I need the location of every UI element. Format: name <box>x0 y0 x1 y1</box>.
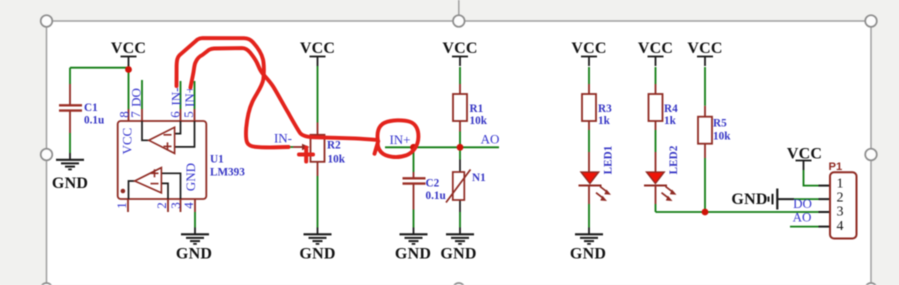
svg-text:P1: P1 <box>829 161 843 173</box>
svg-text:2: 2 <box>837 191 844 206</box>
svg-text:VCC: VCC <box>111 40 146 57</box>
svg-text:3: 3 <box>837 205 844 220</box>
svg-text:10k: 10k <box>713 131 731 143</box>
svg-text:10k: 10k <box>470 115 488 127</box>
svg-text:VCC: VCC <box>687 40 722 57</box>
svg-text:GND: GND <box>570 246 606 263</box>
svg-text:C2: C2 <box>426 178 440 190</box>
svg-text:R3: R3 <box>598 103 612 115</box>
svg-text:AO: AO <box>481 132 500 147</box>
svg-text:R4: R4 <box>664 103 678 115</box>
svg-text:LM393: LM393 <box>210 167 245 179</box>
svg-text:VCC: VCC <box>638 40 673 57</box>
svg-text:GND: GND <box>52 175 88 192</box>
svg-text:7: 7 <box>128 111 143 118</box>
svg-text:U1: U1 <box>210 154 224 166</box>
svg-text:R5: R5 <box>713 118 727 130</box>
svg-text:2: 2 <box>154 202 169 209</box>
svg-text:LED2: LED2 <box>668 145 680 174</box>
svg-text:GND: GND <box>395 246 431 263</box>
svg-text:GND: GND <box>183 163 198 191</box>
svg-text:GND: GND <box>299 246 335 263</box>
svg-text:4: 4 <box>181 202 196 209</box>
svg-text:C1: C1 <box>84 102 98 114</box>
svg-text:VCC: VCC <box>300 40 335 57</box>
svg-text:DO: DO <box>129 88 144 107</box>
svg-text:1k: 1k <box>664 115 677 127</box>
svg-text:AO: AO <box>793 210 812 225</box>
svg-text:R1: R1 <box>470 103 484 115</box>
svg-text:10k: 10k <box>328 154 346 166</box>
svg-text:4: 4 <box>837 219 844 234</box>
svg-text:1: 1 <box>837 177 844 192</box>
svg-text:1: 1 <box>114 202 129 209</box>
svg-text:0.1u: 0.1u <box>426 190 446 202</box>
svg-text:IN-: IN- <box>274 131 292 146</box>
svg-text:VCC: VCC <box>571 40 606 57</box>
svg-text:GND: GND <box>440 246 476 263</box>
svg-text:VCC: VCC <box>442 40 477 57</box>
svg-text:0.1u: 0.1u <box>84 115 104 127</box>
svg-text:IN+: IN+ <box>389 132 410 147</box>
svg-text:VCC: VCC <box>787 146 822 163</box>
svg-text:GND: GND <box>176 246 212 263</box>
svg-text:N1: N1 <box>472 172 486 184</box>
svg-text:5: 5 <box>181 111 196 118</box>
svg-text:VCC: VCC <box>120 128 135 155</box>
svg-text:R2: R2 <box>327 140 341 152</box>
svg-text:1k: 1k <box>598 115 611 127</box>
svg-text:GND: GND <box>731 191 767 208</box>
svg-text:LED1: LED1 <box>603 145 615 174</box>
